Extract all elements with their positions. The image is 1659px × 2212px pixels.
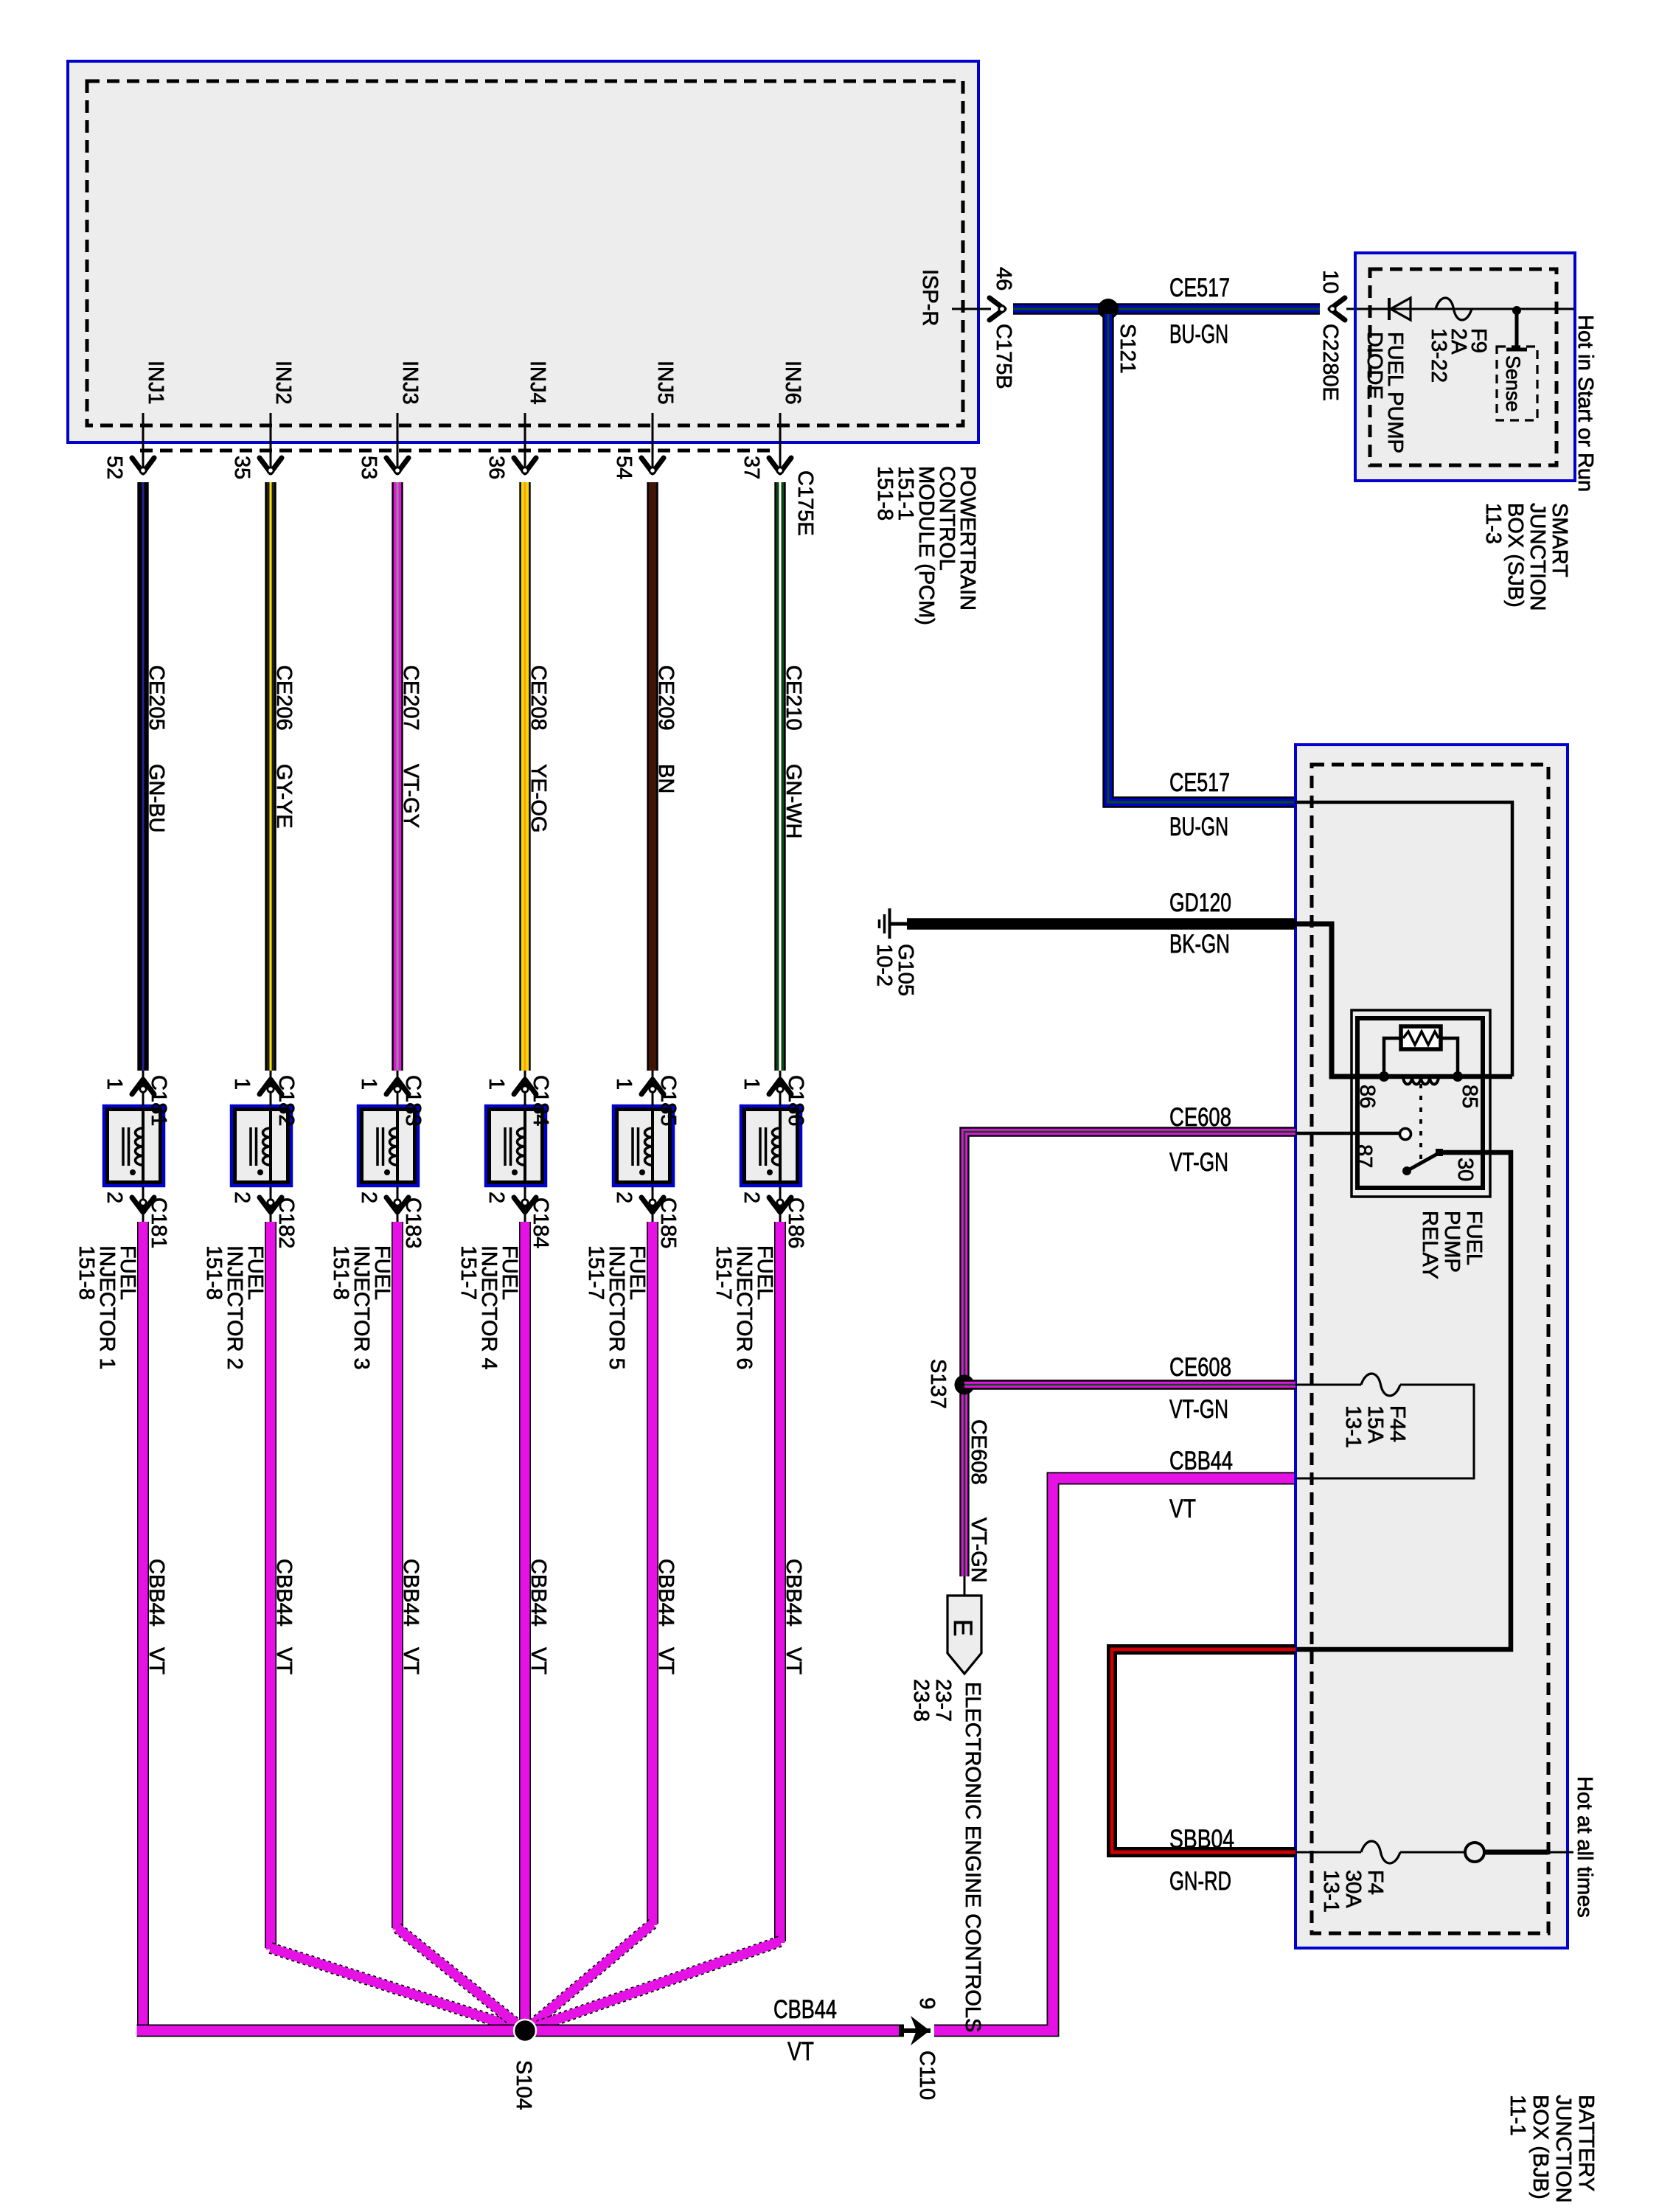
wire CE206 GY-YE — [265, 482, 276, 1071]
wire CBB44 VT from injector 2 — [271, 1222, 525, 2031]
svg-text:13-22: 13-22 — [1427, 328, 1450, 383]
svg-text:GD120: GD120 — [1169, 888, 1231, 917]
svg-text:CE517: CE517 — [1169, 274, 1230, 302]
BJB internal wire relay 87 stub — [1295, 1132, 1400, 1135]
svg-text:35: 35 — [230, 456, 254, 479]
svg-text:151-7: 151-7 — [456, 1245, 480, 1300]
fuel injector 1 — [104, 1106, 164, 1186]
svg-text:CE608: CE608 — [967, 1419, 990, 1485]
injector 1 top pin line — [142, 1071, 145, 1106]
label FUEL PUMP RELAY — [1418, 1211, 1486, 1279]
fuel injector 3 — [358, 1106, 418, 1186]
svg-text:C182: C182 — [274, 1075, 298, 1126]
svg-text:BATTERY: BATTERY — [1574, 2095, 1598, 2191]
svg-text:CBB44: CBB44 — [773, 1995, 837, 2024]
svg-text:S121: S121 — [1116, 324, 1139, 374]
svg-text:RELAY: RELAY — [1418, 1211, 1441, 1279]
INJ2 pin line — [270, 413, 272, 473]
svg-text:1: 1 — [102, 1078, 126, 1090]
label F9 2A 13-22 — [1427, 328, 1490, 383]
svg-text:CBB44: CBB44 — [782, 1559, 805, 1627]
svg-text:GN-RD: GN-RD — [1169, 1867, 1231, 1896]
label FUEL INJECTOR 6 151-7 — [712, 1245, 776, 1370]
wire CE517 BU-GN (C175B to S121 to C2280E) — [1013, 303, 1320, 314]
wire CE608 VT-GN (S137 to fuse F44) — [964, 1380, 1295, 1389]
svg-text:INJ3: INJ3 — [398, 361, 422, 405]
svg-text:SBB04: SBB04 — [1169, 1825, 1234, 1854]
SJB inner dashed border — [1370, 269, 1557, 465]
svg-text:C183: C183 — [401, 1197, 425, 1248]
svg-text:INJ2: INJ2 — [271, 361, 295, 405]
svg-text:151-8: 151-8 — [873, 466, 897, 521]
fuse F9 2A — [1436, 298, 1472, 320]
label FUEL PUMP DIODE — [1363, 332, 1407, 453]
svg-text:CBB44: CBB44 — [399, 1559, 422, 1627]
svg-text:C185: C185 — [656, 1197, 680, 1248]
svg-text:CE207: CE207 — [399, 665, 422, 731]
svg-text:CBB44: CBB44 — [654, 1559, 678, 1627]
svg-text:CE206: CE206 — [272, 665, 296, 731]
relay suppression resistor — [1384, 1026, 1458, 1077]
svg-text:1: 1 — [612, 1078, 636, 1090]
svg-text:151-7: 151-7 — [584, 1245, 608, 1300]
BJB internal wire CE517 to relay pin 85 — [1295, 802, 1512, 1077]
wire CE205 GN-BU — [137, 482, 148, 1071]
svg-text:CE205: CE205 — [145, 665, 168, 731]
injector 2 top pin line — [270, 1071, 272, 1106]
svg-text:JUNCTION: JUNCTION — [1526, 503, 1549, 611]
label FUEL INJECTOR 2 151-8 — [202, 1245, 267, 1370]
svg-text:G105: G105 — [894, 944, 917, 996]
INJ3 pin line — [397, 413, 399, 473]
svg-text:2: 2 — [740, 1192, 763, 1203]
connector C184 pin 1 arrow — [514, 1079, 536, 1094]
injector 4 top pin line — [524, 1071, 526, 1106]
label ELECTRONIC ENGINE CONTROLS 23-7 23-8 — [961, 1682, 984, 2032]
fuel pump relay box — [1352, 1010, 1490, 1197]
label F4 30A 13-1 — [1319, 1870, 1387, 1913]
connector C186 pin 2 arrow — [769, 1197, 791, 1212]
svg-text:CBB44: CBB44 — [145, 1559, 168, 1627]
svg-text:2: 2 — [230, 1192, 254, 1203]
connector C110 arrow pin 9 — [899, 2028, 931, 2033]
fuel injector 4 — [486, 1106, 546, 1186]
fuel injector 6 — [741, 1106, 801, 1186]
injector 2 bottom pin line — [270, 1186, 272, 1224]
svg-text:VT: VT — [787, 2037, 814, 2066]
svg-text:BU-GN: BU-GN — [1169, 813, 1228, 841]
BJB inner dashed border — [1312, 765, 1548, 1933]
svg-text:VT: VT — [654, 1647, 678, 1674]
INJ1 pin line — [142, 413, 145, 473]
svg-text:BN: BN — [654, 764, 678, 793]
svg-text:ISP-R: ISP-R — [918, 269, 942, 326]
svg-text:2: 2 — [484, 1192, 508, 1203]
connector arrow pin 35 — [260, 458, 282, 473]
relay pin 87 contact — [1400, 1129, 1411, 1140]
connector C175E dashed line — [140, 449, 773, 453]
svg-text:VT: VT — [399, 1647, 422, 1674]
INJ5 pin line — [652, 413, 654, 473]
svg-text:VT: VT — [526, 1647, 550, 1674]
svg-text:PUMP: PUMP — [1440, 1211, 1464, 1273]
svg-text:CBB44: CBB44 — [272, 1559, 296, 1627]
connector C182 pin 2 arrow — [260, 1197, 282, 1212]
svg-text:11-3: 11-3 — [1481, 503, 1505, 544]
splice S121 — [1098, 299, 1119, 319]
svg-text:10: 10 — [1318, 270, 1342, 293]
connector arrow pin 54 — [641, 458, 664, 473]
BJB internal wire ground to relay pin 86 — [1295, 924, 1383, 1077]
svg-text:F4: F4 — [1363, 1870, 1387, 1895]
svg-text:37: 37 — [740, 456, 763, 479]
svg-text:86: 86 — [1355, 1085, 1379, 1108]
svg-text:CE608: CE608 — [1169, 1103, 1231, 1132]
svg-text:13-1: 13-1 — [1341, 1405, 1365, 1448]
svg-text:VT: VT — [145, 1647, 168, 1674]
wire GD120 BK-GN — [907, 918, 1295, 930]
svg-text:F44: F44 — [1385, 1405, 1409, 1442]
svg-text:23-8: 23-8 — [909, 1679, 933, 1722]
svg-text:85: 85 — [1458, 1085, 1481, 1108]
ground label G105 10-2 — [872, 944, 917, 996]
relay coil — [1379, 1071, 1512, 1085]
svg-text:2: 2 — [357, 1192, 380, 1203]
fuel pump diode — [1389, 298, 1411, 320]
label FUEL INJECTOR 1 151-8 — [74, 1245, 139, 1370]
wire CE209 BN — [647, 482, 658, 1071]
connector C182 pin 1 arrow — [260, 1079, 282, 1094]
svg-text:CE209: CE209 — [654, 665, 678, 731]
svg-text:S104: S104 — [512, 2060, 535, 2110]
svg-text:30A: 30A — [1341, 1870, 1365, 1908]
battery feed terminal — [1400, 1851, 1465, 1854]
connector C185 pin 2 arrow — [641, 1197, 664, 1212]
svg-text:87: 87 — [1352, 1144, 1376, 1168]
fuse F4 30A — [1361, 1841, 1400, 1863]
svg-text:1: 1 — [357, 1078, 380, 1090]
svg-text:GN-BU: GN-BU — [145, 764, 168, 832]
svg-text:Hot at all times: Hot at all times — [1573, 1776, 1596, 1918]
svg-text:30: 30 — [1453, 1158, 1477, 1181]
svg-text:151-8: 151-8 — [329, 1245, 352, 1300]
wire CBB44 VT from injector 5 — [525, 1222, 653, 2031]
svg-text:GN-WH: GN-WH — [782, 764, 805, 838]
wire stub into SJB — [1346, 308, 1357, 310]
svg-text:C110: C110 — [915, 2051, 939, 2100]
fuel injector 2 — [232, 1106, 291, 1186]
svg-text:BOX (SJB): BOX (SJB) — [1503, 503, 1527, 608]
INJ4 pin line — [524, 413, 526, 473]
svg-text:INJ1: INJ1 — [144, 361, 167, 405]
connector C184 pin 2 arrow — [514, 1197, 536, 1212]
svg-text:VT-GY: VT-GY — [399, 764, 422, 828]
BJB internal wire fuse F44 to CBB44 exit — [1297, 1385, 1474, 1478]
svg-text:CE210: CE210 — [782, 665, 805, 731]
connector C183 pin 1 arrow — [386, 1079, 408, 1094]
svg-text:INJ4: INJ4 — [526, 361, 549, 405]
Battery Junction Box (BJB) — [1295, 745, 1568, 1948]
BJB internal feed wire (Hot at all times) — [1484, 1850, 1548, 1855]
wire CE208 YE-OG — [519, 482, 530, 1071]
svg-text:53: 53 — [357, 456, 380, 479]
svg-text:13-1: 13-1 — [1319, 1870, 1343, 1913]
svg-text:VT: VT — [272, 1647, 296, 1674]
wire CBB44 VT from injector 3 — [397, 1222, 525, 2031]
injector 5 top pin line — [652, 1071, 654, 1106]
connector arrow pin 36 — [514, 458, 536, 473]
svg-text:CBB44: CBB44 — [526, 1559, 550, 1627]
injector 6 bottom pin line — [779, 1186, 782, 1224]
PCM module box — [68, 61, 978, 442]
injector 1 bottom pin line — [142, 1186, 145, 1224]
svg-text:1: 1 — [230, 1078, 254, 1090]
connector C175B arrow pin 46 — [990, 298, 1004, 320]
injector 6 top pin line — [779, 1071, 782, 1106]
connector arrow pin 37 — [769, 458, 791, 473]
wire CBB44 VT from injector 4 — [519, 1222, 531, 2031]
connector C185 pin 1 arrow — [641, 1079, 664, 1094]
svg-text:151-8: 151-8 — [202, 1245, 226, 1300]
svg-text:11-1: 11-1 — [1506, 2095, 1529, 2136]
ground G105 symbol — [880, 908, 909, 939]
connector arrow pin 53 — [386, 458, 408, 473]
connector C183 pin 2 arrow — [386, 1197, 408, 1212]
relay actuation dashed link — [1419, 1084, 1422, 1162]
svg-text:C184: C184 — [529, 1197, 552, 1248]
svg-text:1: 1 — [484, 1078, 508, 1090]
svg-text:C182: C182 — [274, 1197, 298, 1248]
Smart Junction Box (SJB) — [1355, 253, 1575, 481]
svg-text:52: 52 — [102, 456, 126, 479]
svg-text:C185: C185 — [656, 1075, 680, 1126]
svg-text:INJ5: INJ5 — [653, 361, 677, 405]
svg-text:CBB44: CBB44 — [1169, 1447, 1233, 1475]
wire ISP-R pin line — [952, 308, 991, 310]
svg-text:GY-YE: GY-YE — [272, 764, 296, 829]
connector C186 pin 1 arrow — [769, 1079, 791, 1094]
svg-text:C181: C181 — [147, 1197, 170, 1248]
svg-text:Sense: Sense — [1502, 355, 1524, 412]
svg-text:23-7: 23-7 — [931, 1679, 955, 1722]
wire CE608 VT-GN (relay 87 to S137 to connector E) — [964, 1132, 1295, 1576]
svg-text:151-8: 151-8 — [74, 1245, 98, 1300]
injector 4 bottom pin line — [524, 1186, 526, 1224]
wire CBB44 VT from injector 6 — [525, 1222, 780, 2031]
label FUEL INJECTOR 3 151-8 — [329, 1245, 394, 1370]
svg-text:BOX (BJB): BOX (BJB) — [1528, 2095, 1552, 2199]
wire CE210 GN-WH — [774, 482, 785, 1071]
svg-text:CE208: CE208 — [526, 665, 550, 731]
svg-text:C175E: C175E — [793, 470, 817, 536]
injector 3 bottom pin line — [397, 1186, 399, 1224]
label BATTERY JUNCTION BOX (BJB) 11-1 — [1506, 2095, 1598, 2203]
injector 3 top pin line — [397, 1071, 399, 1106]
injector 5 bottom pin line — [652, 1186, 654, 1224]
sense tap node — [1512, 306, 1521, 315]
svg-text:C2280E: C2280E — [1318, 324, 1342, 401]
connector C181 pin 1 arrow — [132, 1079, 154, 1094]
Sense dashed box — [1497, 347, 1537, 420]
INJ6 pin line — [779, 413, 782, 473]
svg-text:YE-OG: YE-OG — [526, 764, 550, 832]
svg-text:46: 46 — [992, 267, 1015, 291]
svg-text:ELECTRONIC ENGINE CONTROLS: ELECTRONIC ENGINE CONTROLS — [961, 1682, 984, 2032]
wire CE517 BU-GN (S121 down to BJB) — [1108, 314, 1294, 802]
wire SBB04 GN-RD loop — [1112, 1649, 1295, 1852]
svg-text:VT: VT — [782, 1647, 805, 1674]
connector C2280E arrow pin 10 — [1330, 298, 1345, 320]
svg-text:S137: S137 — [926, 1359, 950, 1409]
svg-text:2: 2 — [102, 1192, 126, 1203]
svg-text:15A: 15A — [1363, 1405, 1387, 1444]
svg-text:JUNCTION: JUNCTION — [1551, 2095, 1575, 2203]
svg-text:DIODE: DIODE — [1363, 332, 1386, 400]
wire CBB44 VT from injector 1 — [137, 1222, 149, 2031]
svg-text:C183: C183 — [401, 1075, 425, 1126]
SJB internal feed wire — [1357, 308, 1573, 310]
PCM inner dashed border — [87, 81, 963, 425]
svg-text:CE517: CE517 — [1169, 768, 1230, 797]
wire CE207 VT-GY — [392, 482, 403, 1071]
svg-text:1: 1 — [740, 1078, 763, 1090]
svg-text:CE608: CE608 — [1169, 1353, 1231, 1382]
splice S137 — [955, 1375, 975, 1395]
svg-text:VT-GN: VT-GN — [1169, 1148, 1228, 1177]
svg-text:9: 9 — [915, 1997, 939, 2009]
label SMART JUNCTION BOX (SJB) 11-3 — [1481, 503, 1571, 611]
label FUEL INJECTOR 4 151-7 — [456, 1245, 521, 1370]
svg-text:36: 36 — [484, 456, 508, 479]
BJB internal wire relay 30 to SBB04 exit — [1297, 1152, 1511, 1649]
connector arrow pin 52 — [132, 458, 154, 473]
fuse F44 15A — [1361, 1374, 1400, 1396]
svg-text:C175B: C175B — [992, 324, 1015, 389]
svg-text:Hot in Start or Run: Hot in Start or Run — [1573, 315, 1597, 492]
sense drop line — [1515, 310, 1519, 348]
fuel injector 5 — [613, 1106, 673, 1186]
label POWERTRAIN CONTROL MODULE (PCM) — [873, 466, 979, 625]
connector C181 pin 2 arrow — [132, 1197, 154, 1212]
wire CBB44 VT trunk (S104 to C110 to BJB) — [137, 1478, 1298, 2031]
label F44 15A 13-1 — [1341, 1405, 1409, 1448]
svg-text:151-7: 151-7 — [712, 1245, 735, 1300]
svg-text:C186: C186 — [784, 1197, 807, 1248]
svg-text:10-2: 10-2 — [872, 944, 896, 987]
svg-text:BU-GN: BU-GN — [1169, 320, 1228, 349]
svg-text:E: E — [948, 1619, 977, 1636]
svg-text:VT: VT — [1169, 1495, 1196, 1523]
svg-text:INJ6: INJ6 — [781, 361, 804, 405]
svg-text:VT-GN: VT-GN — [1169, 1395, 1228, 1424]
svg-text:C184: C184 — [529, 1075, 552, 1126]
connector E to electronic engine controls — [964, 1576, 966, 1597]
svg-text:C186: C186 — [784, 1075, 807, 1126]
svg-text:BK-GN: BK-GN — [1169, 930, 1230, 959]
svg-text:2: 2 — [612, 1192, 636, 1203]
BJB internal wire to fuse F44 — [1295, 1384, 1361, 1386]
svg-text:SMART: SMART — [1548, 503, 1571, 577]
svg-text:C181: C181 — [147, 1075, 170, 1126]
relay switch arm — [1402, 1149, 1443, 1175]
splice S104 — [514, 2020, 536, 2042]
svg-text:VT-GN: VT-GN — [967, 1517, 990, 1583]
svg-text:54: 54 — [612, 456, 636, 479]
label FUEL INJECTOR 5 151-7 — [584, 1245, 649, 1370]
svg-text:FUEL: FUEL — [1462, 1211, 1486, 1265]
BJB internal wire to fuse F4 — [1295, 1851, 1361, 1854]
